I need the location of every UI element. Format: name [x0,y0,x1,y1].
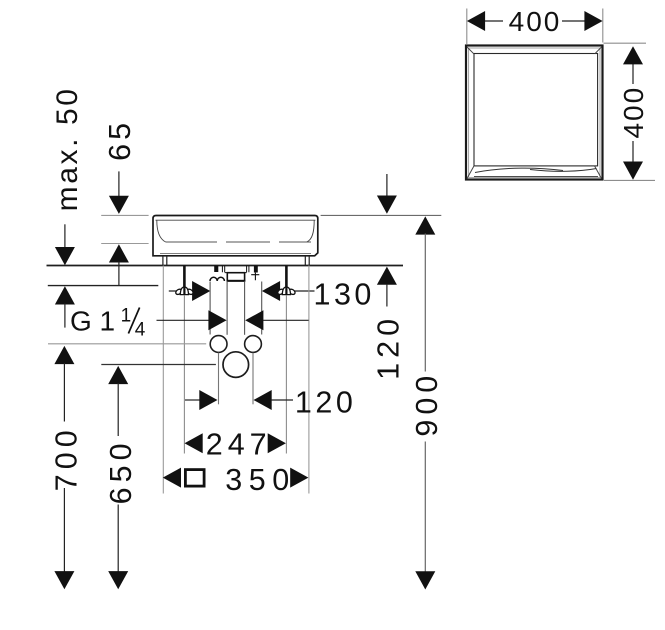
bowl interior left curve [157,220,166,242]
drain height line (650 reference) [101,364,216,366]
arrow 650 up [108,366,128,384]
left screw shaft [183,266,186,295]
arrow 120h right-pointing [199,390,217,410]
700 upper shaft [63,363,65,422]
arrow 247 left-pointing [185,433,203,453]
700 lower shaft [63,488,65,572]
arrow up 400v [623,46,643,64]
arrow 120v up [377,267,397,285]
dim line 130 left tail [169,290,193,292]
left screw wing nut [175,287,194,296]
basin plan inner rim square [474,54,598,166]
arrow 120h left-pointing [254,390,272,410]
max50 lower shaft [64,304,66,328]
arrow G11/4 left-pointing [245,310,263,330]
arrow 65 down [109,196,129,214]
basin bottom inner line [160,253,311,255]
drain pipe right double wall [247,266,249,273]
extension line right of 400 [602,9,604,43]
right screw shaft [285,266,288,295]
faucet hole height line (700 reference) [48,343,206,345]
wall line [47,265,404,267]
arrow 247 right-pointing [268,433,286,453]
tangent guide lines below drain (A,B,C,D) [209,282,211,335]
arrow 900 down [415,571,435,589]
drain pipe left double wall [222,266,224,273]
svg-text:400: 400 [618,86,649,139]
arrow down 400v [623,162,643,180]
arrow 350 right-pointing [290,468,308,488]
dim line 400 right segment [562,20,585,22]
900 lower shaft [424,442,426,572]
right screw extension line down [285,296,287,454]
svg-text:400: 400 [509,6,562,37]
dim line 400 left segment [484,20,503,22]
arrow 120v down [377,196,397,214]
corner tick bottom-right [595,166,602,179]
basin left foot [163,256,167,265]
hole centre line right down [252,353,254,405]
bowl bottom wave right [530,169,597,172]
drain left omega wing [210,277,224,281]
drain left bracket [214,266,218,273]
basin right edge extension [308,266,310,494]
hole centre line left down [218,353,220,405]
dim line 120h right tail [271,399,293,401]
svg-text:700: 700 [49,425,83,491]
svg-text:130: 130 [314,277,375,311]
arrow max50 up [55,286,75,304]
max50 lower reference line [48,285,159,287]
svg-text:65: 65 [103,119,137,161]
650 lower shaft [117,505,119,572]
svg-text:247: 247 [206,427,272,461]
bowl interior right curve [307,220,314,242]
svg-text:120: 120 [295,385,356,419]
arrow 650 down [108,571,128,589]
bowl bottom wave left [475,168,563,172]
arrow 130 right-pointing [192,281,210,301]
extension line bottom for vertical 400 [604,179,655,181]
faucet hole right [245,336,262,353]
max50 upper shaft [64,224,66,248]
dim line 900.. 400v upper segment [632,63,634,84]
right screw lower black tip [285,287,287,295]
bowl bottom front line [474,176,598,178]
svg-text:1: 1 [121,306,132,327]
svg-text:max. 50: max. 50 [51,86,84,211]
arrow G11/4 right-pointing [208,310,226,330]
arrow 65 up [109,244,129,262]
faucet hole left [210,336,227,353]
arrow 900 up [415,216,435,234]
dim line 130 right tail [280,290,315,292]
65 upper shaft [118,171,120,197]
svg-text:350: 350 [225,463,295,497]
arrow left 400 [467,11,485,31]
corner tick top-right [595,47,602,54]
basin plan outer square [466,46,603,180]
basin left edge extension [162,266,164,494]
rim extension line left [101,214,148,216]
right screw wing nut [277,287,296,296]
120v upper shaft [386,174,388,197]
arrow 700 down [54,571,74,589]
rim extension line right [321,214,442,216]
dim line 400v lower segment [632,141,634,162]
basin rim inner line [156,219,316,221]
basin body outline [153,216,318,256]
drain right bracket [254,266,258,273]
bowl bottom extension line left [101,243,148,245]
svg-text:4: 4 [135,320,146,341]
basin plan mid offset line [469,48,600,177]
corner tick bottom-left [467,166,474,179]
dim line 120h left tail [185,399,200,401]
drain trap bottom thick edge [227,280,246,282]
square symbol [185,470,204,487]
leader line G 1 1/4 [157,319,209,321]
extension line top for vertical 400 [604,42,647,44]
extension line left of 400 [466,9,468,45]
svg-text:900: 900 [410,371,444,437]
dim line G11/4 right tail [263,319,309,321]
left screw lower black tip [183,287,185,295]
drain hole large [223,352,249,378]
svg-text:G 1: G 1 [70,306,115,337]
900 upper shaft [424,234,426,372]
arrow 130 left-pointing [262,281,280,301]
fraction slash [128,308,139,334]
drain right pin [251,273,259,281]
svg-text:120: 120 [372,314,406,380]
bowl interior bottom segments [166,241,312,243]
65 lower shaft [118,262,120,286]
arrow 700 up [54,346,74,364]
arrow right 400 [584,11,602,31]
650 upper shaft [117,383,119,436]
basin right foot [305,256,309,265]
arrow 350 left-pointing [163,468,181,488]
left screw extension line down [183,296,185,454]
corner tick top-left [467,47,474,54]
drain trap body [227,273,244,281]
svg-text:650: 650 [104,438,138,504]
120v lower shaft [386,284,388,307]
arrow max50 down [55,247,75,265]
drain flange line [225,272,247,274]
